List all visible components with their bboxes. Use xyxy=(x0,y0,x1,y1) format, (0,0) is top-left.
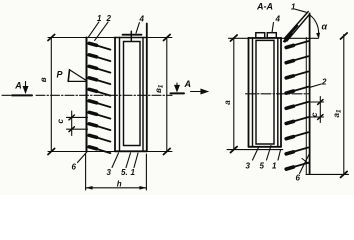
frame bottom edge xyxy=(115,150,147,152)
svg-text:5: 5 xyxy=(260,162,265,171)
louver slats right view xyxy=(286,41,308,169)
leader 6 left view xyxy=(78,152,88,163)
leader 4 right view xyxy=(272,23,274,33)
frame outer left wall xyxy=(114,38,116,152)
svg-text:1: 1 xyxy=(291,3,296,12)
svg-text:1: 1 xyxy=(97,14,102,23)
louver slats left view xyxy=(89,43,110,153)
dim c right arrows xyxy=(318,100,323,120)
top extension line right view xyxy=(229,37,319,39)
bottom extension line xyxy=(48,151,172,153)
tick v1 bottom xyxy=(164,149,171,155)
dim c left: ext lines xyxy=(67,116,88,118)
svg-text:A: A xyxy=(14,81,21,91)
dim c right dim line xyxy=(319,97,321,123)
leader 1 right view xyxy=(295,9,307,12)
svg-text:c: c xyxy=(56,119,65,124)
alpha arc arrowhead xyxy=(316,33,319,38)
section trace bar right xyxy=(171,92,185,94)
section marker A left xyxy=(23,82,27,93)
frame2 bottom edge xyxy=(249,146,282,148)
alpha arc xyxy=(311,16,319,37)
dim line v xyxy=(50,38,52,152)
svg-text:6: 6 xyxy=(296,174,301,183)
leader 6 tick xyxy=(302,159,309,164)
svg-text:4: 4 xyxy=(139,15,145,24)
tick v bottom xyxy=(48,149,55,155)
svg-text:3: 3 xyxy=(246,162,251,171)
svg-text:2: 2 xyxy=(321,78,327,87)
svg-text:h: h xyxy=(117,180,122,189)
dim h line xyxy=(86,187,147,189)
tick v top xyxy=(48,35,55,41)
leader 4 left view xyxy=(136,23,139,34)
leaders 3 5 1 right view xyxy=(253,148,259,161)
frame top edge xyxy=(115,37,147,39)
leader 6 right view xyxy=(300,153,311,174)
leader 1 left view xyxy=(89,22,99,37)
svg-text:6: 6 xyxy=(72,163,77,172)
svg-text:4: 4 xyxy=(275,15,281,24)
svg-text:1: 1 xyxy=(131,168,136,177)
svg-text:A: A xyxy=(184,79,192,89)
clamp rect left xyxy=(256,33,265,38)
frame2 right wall outer xyxy=(280,38,282,147)
tick a1 bottom xyxy=(341,171,348,177)
dim line a xyxy=(233,38,235,150)
dim c left: dim line xyxy=(71,111,73,136)
leaders 3 5 1 bottom left view xyxy=(112,153,119,168)
dim line v1 xyxy=(166,38,168,152)
louver plate edge left view xyxy=(86,38,88,152)
svg-text:c: c xyxy=(310,112,319,117)
frame right wall outer xyxy=(146,24,148,152)
flap line outer xyxy=(284,12,308,39)
tick a1 top xyxy=(341,33,348,39)
centerline left dash xyxy=(2,94,11,96)
section view arrow A-A xyxy=(191,89,208,93)
bottom extension plate xyxy=(306,173,349,175)
tick v1 top xyxy=(164,35,171,41)
dim h arrows xyxy=(86,186,147,190)
frame right wall inner xyxy=(142,38,144,152)
tick a top xyxy=(231,35,238,41)
frame2 top edge xyxy=(249,37,282,39)
svg-text:P: P xyxy=(57,70,64,80)
clamp rect right xyxy=(267,33,276,38)
frame2 cavity rect xyxy=(256,40,274,144)
tick a bottom xyxy=(231,147,238,153)
dim h ext lines xyxy=(85,154,87,190)
louver plate edge right view xyxy=(309,14,311,174)
svg-text:а: а xyxy=(223,100,232,105)
flap line inner xyxy=(287,14,310,41)
louver plate inner line xyxy=(305,38,307,174)
svg-text:А-А: А-А xyxy=(256,2,273,12)
frame2 right wall inner xyxy=(277,38,279,147)
flap base blob xyxy=(283,36,289,43)
svg-text:5.: 5. xyxy=(121,168,128,177)
svg-text:α: α xyxy=(322,22,328,32)
svg-text:2: 2 xyxy=(106,14,112,23)
clamp 4 bar top xyxy=(123,34,142,36)
frame left wall inner xyxy=(119,38,121,152)
dim line a1 xyxy=(343,35,345,175)
leader 2 left view xyxy=(95,22,108,41)
top extension line xyxy=(48,37,172,39)
leader 2 right view xyxy=(310,84,321,87)
section trace bar left xyxy=(12,94,32,96)
leader P force arrow xyxy=(68,70,86,82)
bottom extension frame xyxy=(227,149,283,151)
dim c right ext lines xyxy=(310,101,324,103)
frame2 left wall inner xyxy=(252,38,254,147)
centerline right view xyxy=(246,93,310,95)
flap slat stroke xyxy=(287,26,297,38)
frame cavity rect xyxy=(124,42,141,146)
clamp 4 tab xyxy=(130,31,132,41)
dim c left arrows xyxy=(69,115,74,132)
svg-text:1: 1 xyxy=(272,162,277,171)
frame2 outer left wall xyxy=(248,38,250,147)
section marker A right of left view xyxy=(175,83,179,91)
svg-text:3: 3 xyxy=(107,168,112,177)
centerline left view xyxy=(36,94,172,96)
svg-text:в: в xyxy=(39,77,48,82)
